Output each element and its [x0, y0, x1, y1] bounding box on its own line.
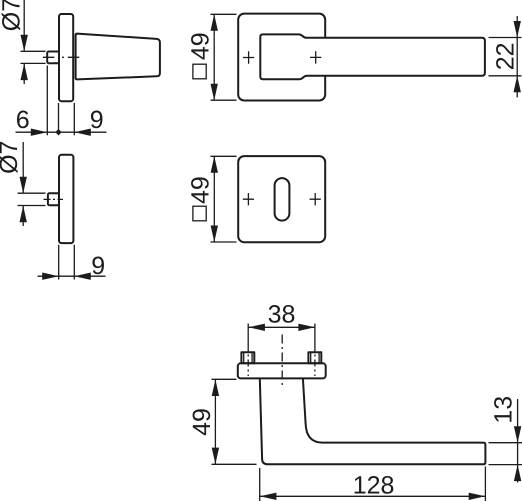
screw post left: [241, 352, 254, 363]
dim line 6/9: [16, 131, 107, 133]
arrow right: [31, 129, 48, 136]
centerline view2: [44, 198, 64, 200]
plus mark left (view3): [243, 51, 254, 63]
rose (side): [59, 155, 73, 243]
dim 49 (view4) extension lines: [211, 156, 237, 242]
plus mark right (view4): [310, 193, 321, 205]
svg-text:6: 6: [16, 106, 30, 134]
svg-text:128: 128: [353, 471, 395, 499]
dim 38 extension lines: [248, 324, 315, 346]
plus mark left (view4): [243, 193, 254, 205]
dim 49 (view3) extension lines: [211, 14, 237, 100]
dim line 128: [260, 495, 485, 497]
dim line lower + arrow up: [23, 64, 25, 84]
rose plate top view: [238, 363, 326, 378]
dim line 38: [248, 326, 315, 328]
svg-text:13: 13: [489, 396, 517, 424]
svg-text:Ø7: Ø7: [0, 0, 25, 31]
square escutcheon: [238, 156, 325, 242]
plus mark right (view3): [310, 51, 321, 63]
dim 9 (view2) extension lines: [59, 245, 75, 280]
svg-text:Ø7: Ø7: [0, 141, 23, 174]
dim line 9: [38, 275, 106, 277]
extension lines Ø7 view2: [18, 193, 46, 205]
arrow down: [21, 35, 28, 52]
dim 13 extension lines: [489, 443, 522, 465]
svg-text:9: 9: [90, 106, 104, 134]
spindle neck: [47, 52, 59, 64]
rose (side): [59, 14, 73, 101]
svg-text:9: 9: [91, 252, 105, 280]
svg-text:49: 49: [186, 176, 214, 204]
dim line 49 view3: [213, 14, 215, 100]
neck and grip top view: [260, 378, 486, 464]
dim line lower + arrow up: [22, 206, 24, 226]
dim 49 (view5) extension lines: [212, 379, 257, 464]
centerline left post: [247, 345, 249, 377]
dim 128 extension lines: [260, 467, 486, 501]
spindle nub: [48, 193, 59, 205]
svg-text:22: 22: [491, 42, 519, 70]
grip (side): [76, 34, 160, 80]
svg-text:49: 49: [186, 32, 214, 60]
centerline view1: [43, 56, 80, 58]
svg-text:38: 38: [268, 300, 296, 328]
dim line 13: [517, 399, 519, 483]
centerline plate middle: [281, 335, 283, 388]
dim line 22: [516, 16, 518, 98]
svg-text:49: 49: [188, 408, 216, 436]
dim 22 extension lines: [489, 38, 522, 76]
lever handle front: [260, 34, 485, 79]
arrow left: [74, 129, 91, 136]
square symbol (view4): [193, 206, 206, 221]
dim 6/9 extension lines: [47, 66, 74, 136]
dim line 49 view4: [213, 156, 215, 242]
square rose front: [238, 14, 325, 101]
dim line 49 view5: [214, 379, 216, 464]
square symbol (view3): [193, 64, 206, 79]
dim Ø7 (view1) dimension line upper: [23, 0, 25, 51]
junction dot: [56, 130, 61, 135]
dim Ø7 (view2) dimension line upper: [22, 142, 24, 193]
screw post right: [308, 352, 321, 363]
extension lines Ø7 view1: [21, 51, 46, 63]
centerline right post: [314, 345, 316, 377]
keyhole: [275, 178, 290, 221]
